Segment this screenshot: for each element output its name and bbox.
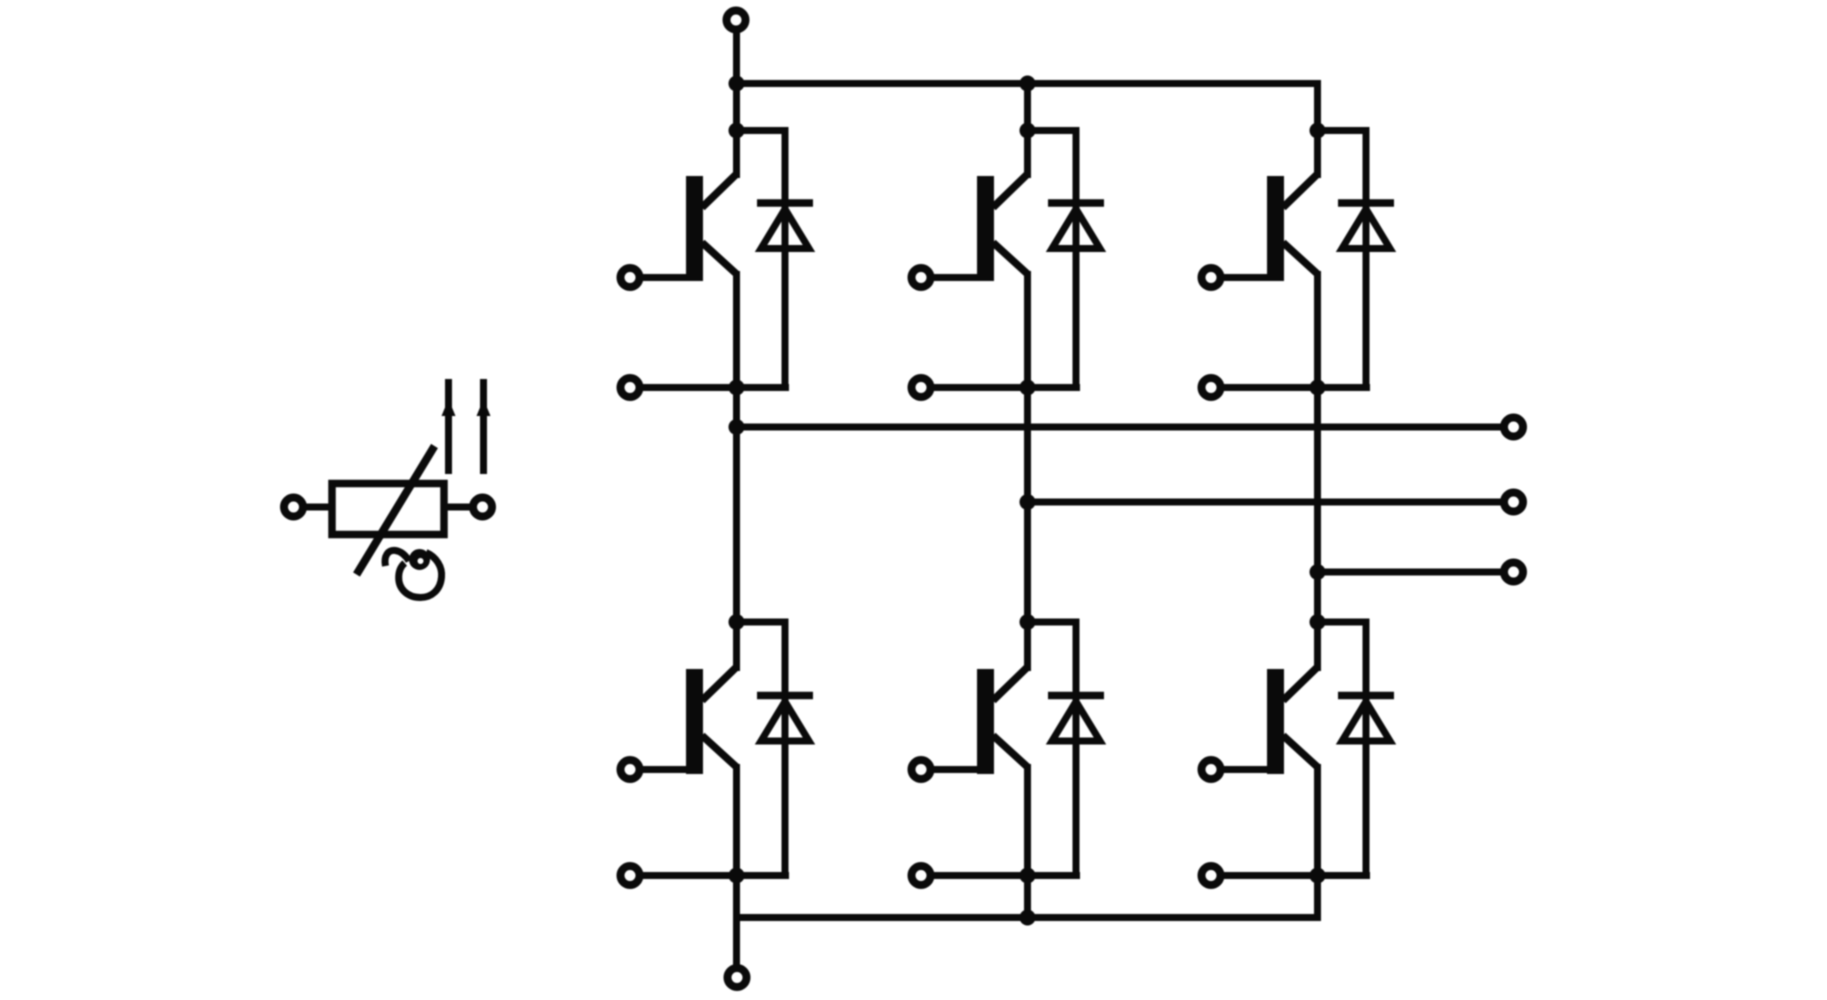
junction (Q1 emitter / aux line) xyxy=(729,380,745,396)
junction (Q4 collector node) xyxy=(729,614,745,630)
diode D6 (free-wheel, bottom of leg 3) xyxy=(1318,622,1395,876)
wire (phase U output line) xyxy=(737,424,1505,431)
wire (top terminal to DC+ bus) xyxy=(733,30,740,178)
junction (Q1 collector node) xyxy=(729,123,745,139)
terminal U (phase U) xyxy=(1504,418,1523,437)
wire (Q6 aux emitter line) xyxy=(1221,872,1370,879)
junction (Q6 emitter / aux line) xyxy=(1310,868,1326,884)
terminal T2 (thermistor right pin) xyxy=(473,498,492,517)
terminal E3 (aux emitter, Q3) xyxy=(1202,378,1221,397)
transistor Q5 (IGBT, bottom of leg 2) xyxy=(931,667,1028,774)
temperature symbol (script theta) xyxy=(385,550,442,597)
wire (leg1 lower emitter vertical to DC- terminal) xyxy=(733,764,740,968)
transistor Q3 (IGBT, top of leg 3) xyxy=(1221,174,1318,281)
transistor Q2 (IGBT, top of leg 2) xyxy=(931,174,1028,281)
diode D5 (free-wheel, bottom of leg 2) xyxy=(1028,622,1105,876)
terminal V (phase V) xyxy=(1504,493,1523,512)
wire (leg3 upper collector drop) xyxy=(1314,80,1321,178)
wire (leg2 lower emitter vertical to DC- bus) xyxy=(1024,764,1031,918)
node V (phase V output junction) xyxy=(1020,494,1036,510)
junction (Q6 collector node) xyxy=(1310,614,1326,630)
terminal G2 (gate, Q2) xyxy=(912,268,931,287)
wire (leg3 emitter vertical, upper to lower) xyxy=(1314,271,1321,671)
terminal G3 (gate, Q3) xyxy=(1202,268,1221,287)
node W (phase W output junction) xyxy=(1310,564,1326,580)
terminal DC- (bottom) xyxy=(728,968,747,987)
wire (leg2 emitter vertical, upper to lower) xyxy=(1024,271,1031,671)
arrow 2 (upward, above thermistor) xyxy=(477,379,491,474)
junction (DC+ bus / leg 1) xyxy=(729,76,745,92)
transistor Q6 (IGBT, bottom of leg 3) xyxy=(1221,667,1318,774)
junction (Q5 emitter / aux line) xyxy=(1020,868,1036,884)
junction (Q4 emitter / aux line) xyxy=(729,868,745,884)
wire (Q1 aux emitter line) xyxy=(640,384,789,391)
terminal G4 (gate, Q4) xyxy=(621,760,640,779)
junction (Q2 emitter / aux line) xyxy=(1020,380,1036,396)
terminal G6 (gate, Q6) xyxy=(1202,760,1221,779)
arrow 1 (upward, above thermistor) xyxy=(442,379,456,474)
node U (phase U output junction) xyxy=(729,419,745,435)
terminal DC+ (top) xyxy=(727,11,746,30)
terminal E6 (aux emitter, Q6) xyxy=(1202,866,1221,885)
wire (Q5 aux emitter line) xyxy=(931,872,1080,879)
wire (phase V output line) xyxy=(1028,499,1505,506)
terminal E5 (aux emitter, Q5) xyxy=(912,866,931,885)
wire (Q3 aux emitter line) xyxy=(1221,384,1370,391)
junction (Q2 collector node) xyxy=(1020,123,1036,139)
junction (Q3 collector node) xyxy=(1310,123,1326,139)
terminal E2 (aux emitter, Q2) xyxy=(912,378,931,397)
terminal W (phase W) xyxy=(1504,563,1523,582)
diode D2 (free-wheel, top of leg 2) xyxy=(1028,131,1105,388)
wire (leg3 lower emitter vertical to DC- bus) xyxy=(1314,764,1321,921)
transistor Q1 (IGBT, top of leg 1) xyxy=(640,174,737,281)
terminal E4 (aux emitter, Q4) xyxy=(621,866,640,885)
transistor Q4 (IGBT, bottom of leg 1) xyxy=(640,667,737,774)
wire (left lead of R1) xyxy=(304,504,333,511)
diode D4 (free-wheel, bottom of leg 1) xyxy=(737,622,814,876)
wire (right lead of R1) xyxy=(444,504,472,511)
wire (phase W output line) xyxy=(1318,569,1505,576)
junction (Q5 collector node) xyxy=(1020,614,1036,630)
wire (leg1 emitter vertical, upper to lower) xyxy=(733,271,740,671)
terminal G5 (gate, Q5) xyxy=(912,760,931,779)
wire (Q2 aux emitter line) xyxy=(931,384,1080,391)
wire (Q4 aux emitter line) xyxy=(640,872,789,879)
terminal T1 (thermistor left pin) xyxy=(284,498,303,517)
diode D3 (free-wheel, top of leg 3) xyxy=(1318,131,1395,388)
resistor body R1 xyxy=(332,484,444,535)
diode D1 (free-wheel, top of leg 1) xyxy=(737,131,814,388)
wire (leg1 upper collector drop) xyxy=(1024,84,1031,179)
variability slash of R1 xyxy=(357,446,435,575)
wire (DC- bus) xyxy=(737,914,1318,921)
junction (DC+ bus / leg 2) xyxy=(1020,76,1036,92)
terminal G1 (gate, Q1) xyxy=(621,268,640,287)
junction (DC- bus / leg 2) xyxy=(1020,910,1036,926)
junction (Q3 emitter / aux line) xyxy=(1310,380,1326,396)
wire (DC+ bus) xyxy=(737,80,1318,87)
terminal E1 (aux emitter, Q1) xyxy=(621,378,640,397)
thermistor R1 (NTC, left) xyxy=(284,379,492,598)
